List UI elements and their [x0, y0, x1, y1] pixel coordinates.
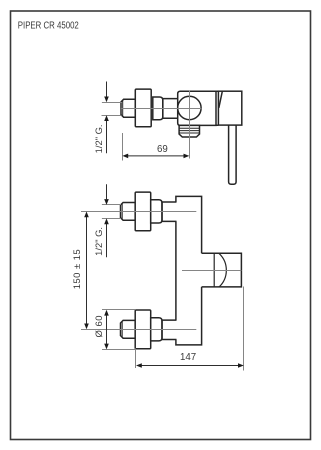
svg-text:69: 69 — [157, 144, 168, 155]
svg-text:1/2" G.: 1/2" G. — [93, 227, 104, 256]
svg-text:Ø 60: Ø 60 — [94, 316, 105, 338]
svg-text:PIPER CR 45002: PIPER CR 45002 — [18, 20, 79, 31]
svg-text:150 ± 15: 150 ± 15 — [72, 249, 83, 289]
svg-text:1/2" G.: 1/2" G. — [93, 124, 104, 153]
svg-text:147: 147 — [180, 352, 196, 363]
